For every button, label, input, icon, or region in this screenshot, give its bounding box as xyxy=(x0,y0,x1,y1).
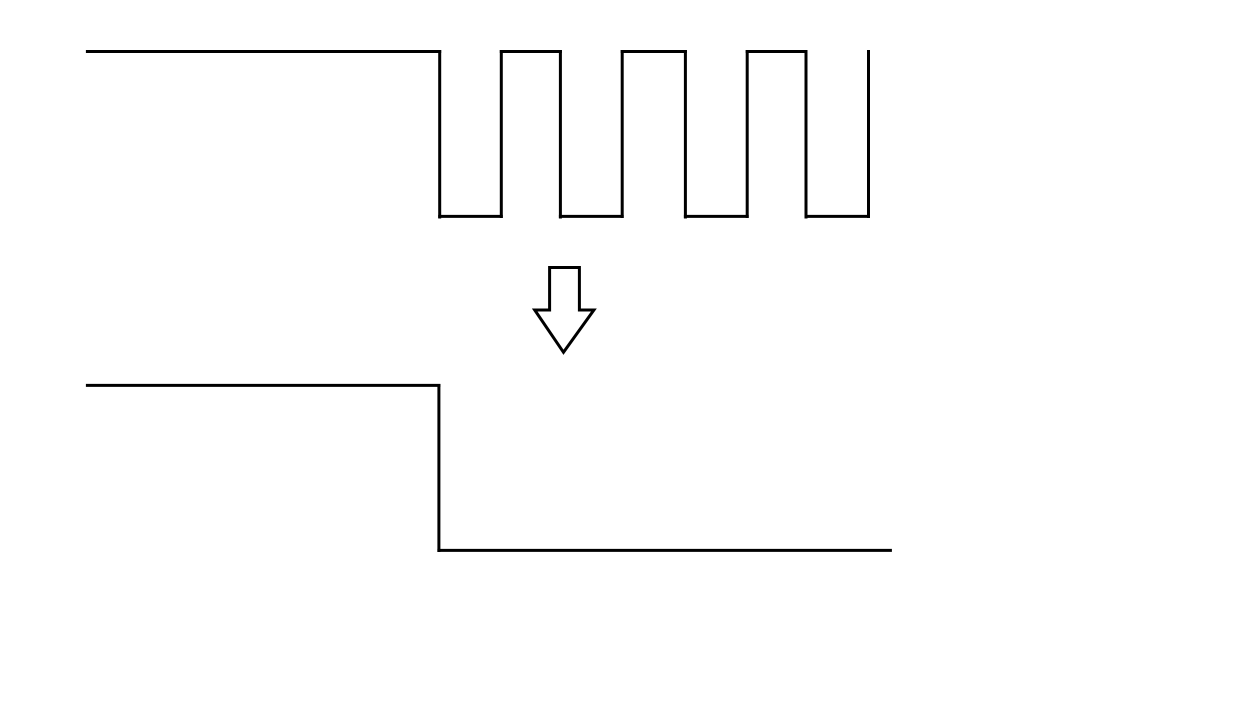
wire: falling edge 3 xyxy=(684,50,687,219)
wire: pulse top 3 xyxy=(746,50,808,53)
wire: pulse top 1 xyxy=(500,50,562,53)
wire: low segment 3 xyxy=(684,215,749,218)
wire: rising edge 1 xyxy=(500,50,503,218)
wire: falling edge 2 xyxy=(559,50,562,219)
wire: low segment 2 xyxy=(559,215,624,218)
wire: low segment 1 xyxy=(438,215,503,218)
wire: clean signal high segment xyxy=(86,384,441,387)
wire: low segment 4 xyxy=(805,215,871,218)
down arrow xyxy=(535,268,594,353)
wire: falling edge 4 xyxy=(805,50,808,219)
wire: clean signal low segment xyxy=(437,549,892,552)
wire: pulse top 2 xyxy=(621,50,687,53)
wire: final rising edge xyxy=(867,50,870,218)
wire: rising edge 2 xyxy=(621,50,624,218)
wire: falling edge 1 xyxy=(438,50,441,219)
wire: bouncy signal high segment (top-left) xyxy=(86,50,441,53)
wire: clean signal falling edge xyxy=(437,384,440,552)
wire: rising edge 3 xyxy=(746,50,749,218)
